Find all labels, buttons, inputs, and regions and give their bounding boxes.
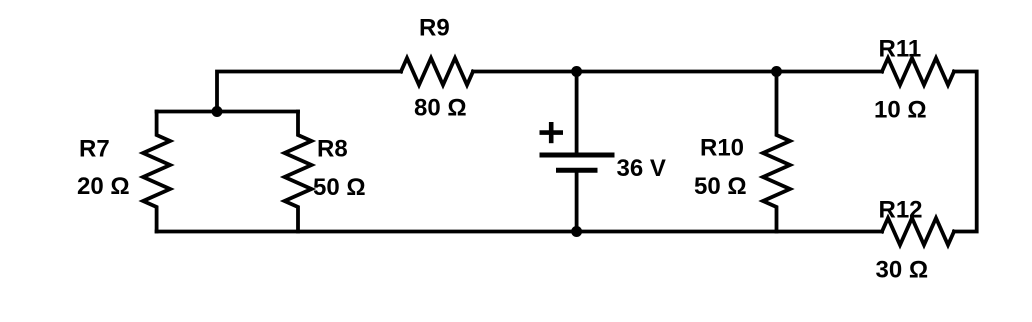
svg-text:80 Ω: 80 Ω [414, 95, 467, 122]
resistor R11 [882, 58, 954, 85]
wire right edge [954, 72, 977, 232]
svg-text:10 Ω: 10 Ω [874, 97, 927, 124]
svg-text:36 V: 36 V [617, 155, 666, 182]
wire tie between R7 and R8 tops [157, 110, 298, 114]
svg-text:30 Ω: 30 Ω [876, 257, 929, 284]
node A junction dot (R7/R8 tie) [212, 106, 223, 117]
svg-text:R11: R11 [879, 36, 922, 63]
node C junction dot (battery bottom) [571, 226, 582, 237]
resistor R12 [882, 218, 954, 245]
wire top rail from R9 to R11 [473, 70, 882, 74]
resistor R10 [763, 72, 790, 232]
svg-text:R7: R7 [79, 136, 110, 163]
wire bottom rail [157, 230, 882, 234]
battery plus sign [540, 122, 564, 143]
svg-text:20 Ω: 20 Ω [77, 173, 130, 200]
svg-text:50 Ω: 50 Ω [694, 173, 747, 200]
svg-text:R10: R10 [700, 135, 744, 162]
battery V1 wire bottom lead [575, 170, 579, 231]
node B junction dot (battery top) [571, 66, 582, 77]
wire top-left riser and top rail to R9 [217, 72, 401, 112]
battery V1 wire top lead [575, 72, 579, 156]
resistor R8 [285, 112, 312, 232]
svg-text:R12: R12 [879, 197, 923, 224]
battery V1 positive plate [540, 153, 615, 158]
battery V1 negative plate [556, 168, 598, 173]
resistor R7 [143, 112, 170, 232]
svg-text:R8: R8 [317, 136, 348, 163]
resistor R9 [401, 58, 473, 85]
node D junction dot (R10 top) [771, 66, 782, 77]
svg-text:R9: R9 [419, 15, 450, 42]
svg-text:50 Ω: 50 Ω [313, 174, 366, 201]
